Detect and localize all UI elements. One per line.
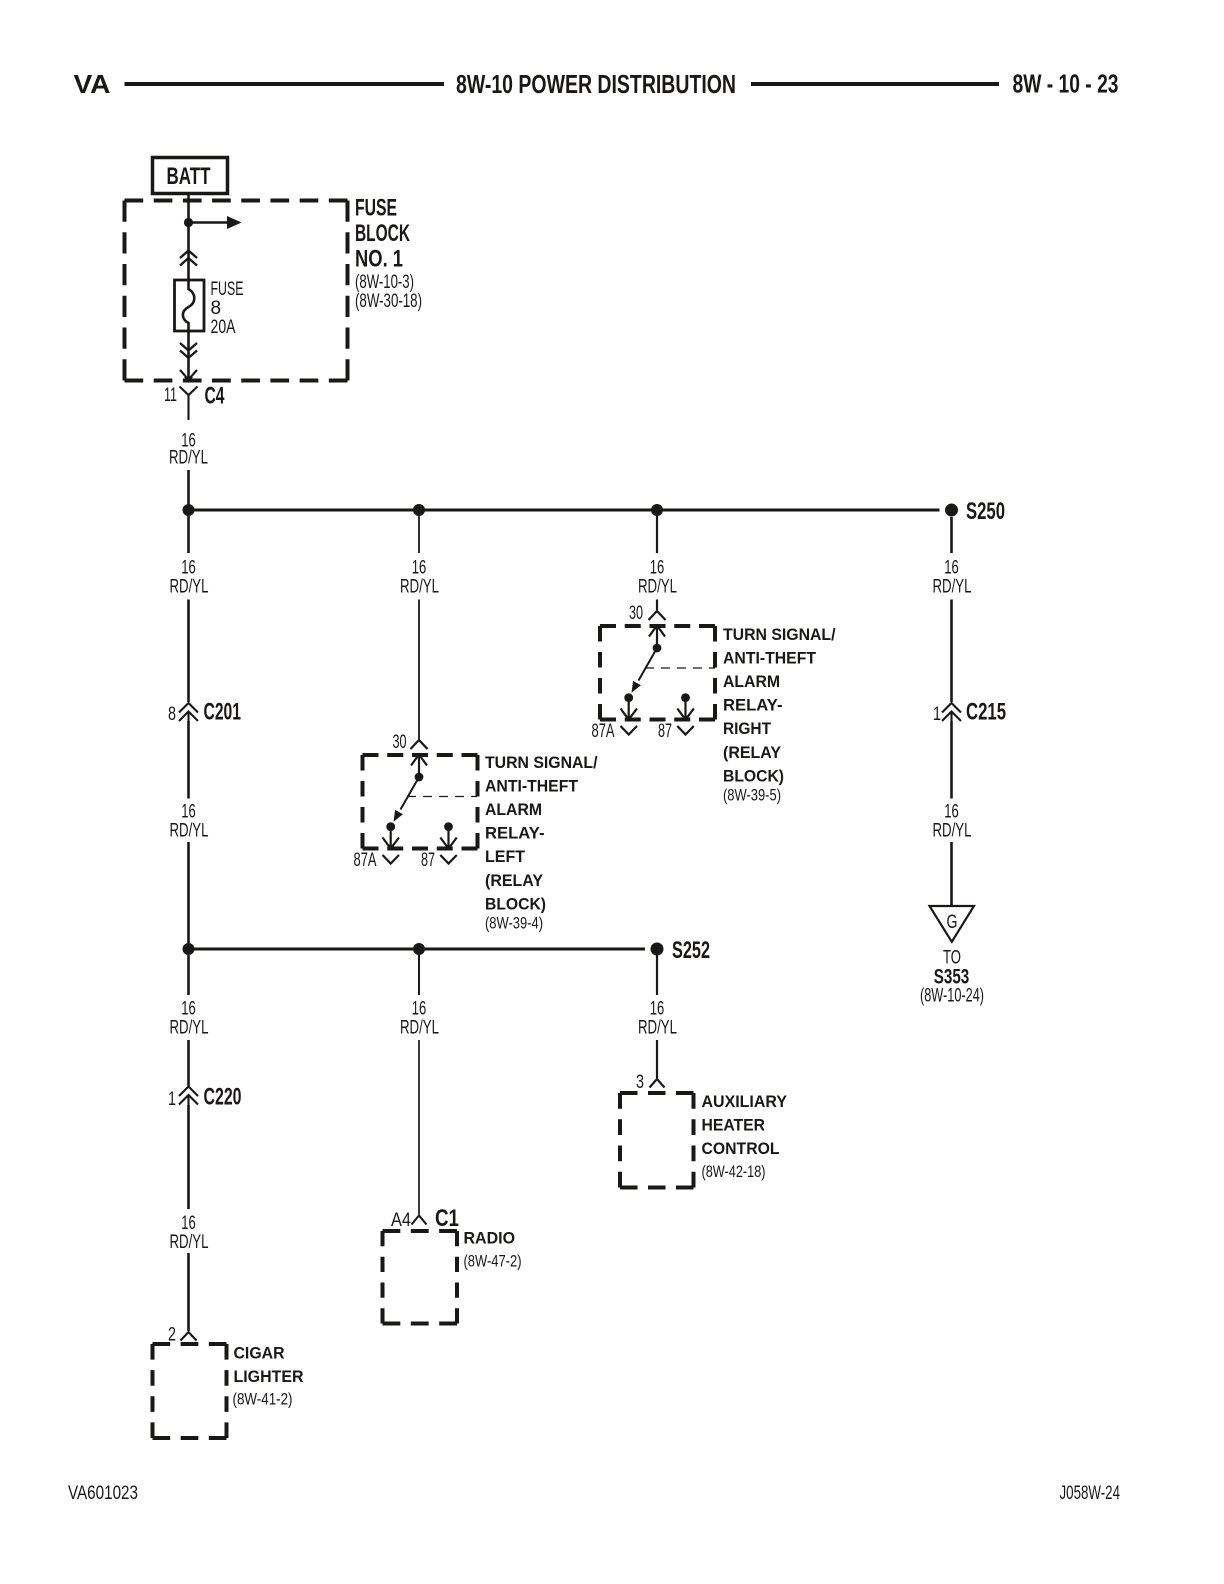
svg-text:16: 16 — [181, 999, 196, 1020]
junction node left column — [183, 943, 195, 955]
svg-text:30: 30 — [393, 732, 407, 753]
wire to ground symbol — [950, 842, 953, 906]
wire C220 down — [187, 1105, 190, 1209]
aux heater control dashed box — [620, 1093, 694, 1188]
wire BATT to junction — [187, 194, 190, 223]
svg-text:C220: C220 — [204, 1084, 242, 1111]
svg-text:RD/YL: RD/YL — [170, 577, 209, 598]
wire gauge label 16 RD/YL — [170, 802, 209, 842]
connector C220 chevrons — [179, 1087, 198, 1106]
svg-text:(8W-39-4): (8W-39-4) — [485, 914, 543, 933]
svg-text:ANTI-THEFT: ANTI-THEFT — [723, 649, 817, 668]
svg-text:(8W-42-18): (8W-42-18) — [702, 1162, 766, 1181]
terminal 87 male arrow — [677, 698, 694, 720]
wire label to connector C201 — [187, 600, 190, 703]
label FUSE BLOCK NO. 1 — [355, 195, 410, 273]
wire label to relay terminal 30 — [656, 600, 658, 611]
relay armature arrow to 87A — [401, 777, 420, 810]
cigar lighter dashed box — [153, 1344, 227, 1438]
relay right dashed box — [600, 626, 715, 720]
label RADIO — [464, 1229, 522, 1271]
terminal 30 female fork — [411, 740, 428, 749]
wire C215 down — [950, 721, 953, 799]
svg-text:RD/YL: RD/YL — [170, 821, 209, 842]
terminal 30 male arrow into relay — [411, 755, 427, 778]
terminal 87 female fork — [677, 726, 694, 735]
relay internal divider dashed — [645, 667, 715, 669]
svg-text:RD/YL: RD/YL — [169, 448, 208, 469]
svg-text:RD/YL: RD/YL — [933, 577, 972, 598]
svg-text:8: 8 — [168, 704, 176, 725]
svg-text:C201: C201 — [204, 699, 242, 726]
svg-text:FUSE: FUSE — [355, 195, 397, 222]
crimp chevrons up — [180, 251, 197, 266]
svg-text:RELAY-: RELAY- — [723, 696, 783, 715]
relay common node — [415, 773, 424, 782]
relay armature arrow to 87A — [639, 648, 658, 681]
wire label to connector C215 — [950, 600, 953, 703]
svg-text:(RELAY: (RELAY — [723, 743, 782, 762]
terminal 87A female fork — [383, 855, 400, 864]
wire gauge label 16 RD/YL — [170, 1213, 209, 1253]
svg-text:8: 8 — [211, 298, 222, 319]
svg-text:1: 1 — [933, 704, 941, 725]
svg-text:CIGAR: CIGAR — [234, 1344, 285, 1363]
svg-text:RD/YL: RD/YL — [400, 1018, 439, 1039]
radio dashed box — [383, 1231, 458, 1324]
label CIGAR LIGHTER — [233, 1344, 304, 1409]
terminal 87A male arrow — [621, 698, 638, 720]
wire gauge label 16 RD/YL — [400, 558, 439, 598]
wire C201 down — [187, 721, 190, 799]
svg-text:FUSE: FUSE — [211, 279, 244, 300]
svg-text:87A: 87A — [354, 850, 377, 871]
terminal 87 node — [681, 693, 690, 702]
svg-text:BATT: BATT — [167, 163, 211, 190]
svg-text:(8W-30-18): (8W-30-18) — [355, 291, 422, 312]
svg-text:S250: S250 — [966, 498, 1005, 525]
label FUSE 8 20A — [211, 279, 244, 338]
wire to bus2 — [187, 842, 190, 949]
svg-text:LEFT: LEFT — [485, 847, 526, 866]
svg-text:(RELAY: (RELAY — [485, 871, 544, 890]
svg-text:RD/YL: RD/YL — [400, 577, 439, 598]
svg-text:BLOCK: BLOCK — [355, 220, 410, 247]
fuse F8 20A — [175, 280, 205, 331]
splice S250 node — [945, 504, 958, 517]
svg-text:CONTROL: CONTROL — [702, 1139, 780, 1158]
wire gauge label 16 RD/YL — [933, 802, 972, 842]
svg-text:87A: 87A — [592, 721, 615, 742]
svg-text:RD/YL: RD/YL — [638, 577, 677, 598]
splice S252 node — [651, 943, 664, 956]
svg-text:BLOCK): BLOCK) — [485, 895, 546, 914]
svg-text:RD/YL: RD/YL — [638, 1018, 677, 1039]
terminal 30 male arrow into relay — [649, 626, 665, 649]
junction node right-mid column — [651, 504, 663, 516]
terminal 87A node — [386, 822, 395, 831]
svg-text:G: G — [947, 912, 958, 933]
connector C201 chevrons — [179, 703, 198, 721]
terminal 30 female fork — [649, 611, 666, 620]
label TO S353 — [920, 948, 984, 1007]
svg-text:(8W-39-5): (8W-39-5) — [723, 786, 781, 805]
svg-text:87: 87 — [658, 721, 672, 742]
junction node in fuse block — [184, 218, 193, 227]
svg-text:NO. 1: NO. 1 — [355, 246, 403, 273]
junction node mid column — [413, 504, 425, 516]
svg-text:TURN SIGNAL/: TURN SIGNAL/ — [723, 625, 836, 644]
terminal 87A female fork — [621, 726, 638, 735]
svg-text:ALARM: ALARM — [723, 672, 780, 691]
wire bus2 to label (mid) — [418, 955, 420, 995]
header rule left — [125, 82, 445, 86]
label turn signal relay right — [723, 625, 836, 805]
svg-text:VA: VA — [74, 69, 111, 99]
svg-text:AUXILIARY: AUXILIARY — [702, 1092, 788, 1111]
wire gauge label 16 RD/YL — [170, 558, 209, 598]
svg-text:RD/YL: RD/YL — [170, 1018, 209, 1039]
wire gauge label 16 RD/YL — [638, 558, 677, 598]
relay left dashed box — [363, 755, 478, 849]
relay internal divider dashed — [407, 796, 477, 798]
battery feed box BATT — [153, 158, 228, 194]
wire gauge label 16 RD/YL — [400, 999, 439, 1039]
wire S252 to label (right) — [656, 955, 658, 995]
svg-text:8W - 10 - 23: 8W - 10 - 23 — [1013, 69, 1119, 99]
svg-text:VA601023: VA601023 — [68, 1483, 138, 1504]
connector C215 chevrons — [942, 703, 961, 721]
svg-text:S252: S252 — [672, 937, 710, 964]
label turn signal relay left — [485, 753, 598, 933]
relay common node — [653, 644, 662, 653]
svg-text:16: 16 — [944, 802, 959, 823]
wire C4 to bus — [187, 470, 190, 510]
junction node left column — [183, 504, 195, 516]
wire label to relay terminal 30 — [418, 600, 420, 740]
ground triangle G — [930, 906, 975, 942]
svg-text:16: 16 — [944, 558, 959, 579]
svg-text:J058W-24: J058W-24 — [1060, 1483, 1121, 1504]
svg-text:RIGHT: RIGHT — [723, 719, 772, 738]
svg-text:RADIO: RADIO — [464, 1229, 516, 1248]
wire bus to label — [187, 516, 190, 553]
aux heater terminal fork — [650, 1079, 665, 1088]
header rule right — [751, 82, 999, 86]
terminal 87 node — [444, 822, 453, 831]
svg-text:87: 87 — [421, 850, 435, 871]
wire gauge label 16 RD/YL — [933, 558, 972, 598]
svg-text:C215: C215 — [966, 699, 1006, 726]
wire to cigar lighter — [187, 1253, 190, 1331]
svg-text:16: 16 — [412, 558, 427, 579]
svg-text:TURN SIGNAL/: TURN SIGNAL/ — [485, 753, 598, 772]
wire bus to label — [656, 516, 658, 553]
svg-text:C1: C1 — [435, 1205, 459, 1232]
wire bus2 to label (left) — [187, 955, 190, 995]
wire branch arrow to other circuits — [189, 221, 229, 224]
wire label to connector C220 — [187, 1040, 190, 1086]
svg-text:RD/YL: RD/YL — [933, 821, 972, 842]
terminal 87 male arrow — [440, 827, 457, 849]
svg-text:RD/YL: RD/YL — [170, 1232, 209, 1253]
wire gauge label 16 RD/YL — [638, 999, 677, 1039]
svg-text:C4: C4 — [205, 383, 225, 410]
svg-text:(8W-47-2): (8W-47-2) — [464, 1252, 522, 1271]
svg-text:RELAY-: RELAY- — [485, 824, 545, 843]
svg-text:A4: A4 — [391, 1210, 411, 1231]
crimp chevrons down — [180, 343, 197, 358]
svg-text:16: 16 — [181, 558, 196, 579]
svg-text:HEATER: HEATER — [702, 1116, 766, 1135]
wire label to radio — [418, 1040, 420, 1215]
connector C4 female Y — [180, 387, 198, 421]
svg-text:16: 16 — [181, 802, 196, 823]
svg-text:20A: 20A — [211, 317, 236, 338]
label AUXILIARY HEATER CONTROL — [702, 1092, 788, 1181]
fuse block no.1 dashed box — [125, 201, 348, 381]
connector C4 male arrow — [180, 370, 197, 380]
wire gauge label 16 RD/YL — [170, 999, 209, 1039]
svg-text:(8W-10-3): (8W-10-3) — [355, 272, 414, 293]
svg-text:16: 16 — [650, 999, 665, 1020]
svg-text:16: 16 — [650, 558, 665, 579]
svg-text:16: 16 — [181, 1213, 196, 1234]
svg-text:(8W-41-2): (8W-41-2) — [233, 1390, 293, 1409]
wire gauge label 16 RD/YL — [169, 431, 208, 469]
svg-text:(8W-10-24): (8W-10-24) — [920, 986, 984, 1007]
svg-text:LIGHTER: LIGHTER — [234, 1367, 304, 1386]
bus wire to splice S252 — [189, 948, 646, 951]
svg-text:3: 3 — [636, 1072, 644, 1093]
svg-text:8W-10 POWER DISTRIBUTION: 8W-10 POWER DISTRIBUTION — [456, 69, 736, 99]
svg-text:BLOCK): BLOCK) — [723, 767, 784, 786]
terminal 87A male arrow — [383, 827, 400, 849]
wire bus to label — [418, 516, 420, 553]
svg-text:16: 16 — [412, 999, 427, 1020]
svg-text:ALARM: ALARM — [485, 800, 542, 819]
svg-text:30: 30 — [629, 603, 643, 624]
terminal 87 female fork — [440, 855, 457, 864]
bus wire to splice S250 — [189, 509, 940, 512]
wire label to aux heater control — [656, 1040, 658, 1078]
wire S250 to label — [950, 517, 953, 553]
wire junction to fuse — [187, 223, 190, 281]
radio terminal fork — [412, 1216, 427, 1225]
wire fuse to connector C4 — [187, 331, 190, 380]
svg-text:11: 11 — [164, 385, 177, 406]
svg-text:ANTI-THEFT: ANTI-THEFT — [485, 777, 579, 796]
svg-text:1: 1 — [168, 1089, 176, 1110]
terminal 87A node — [624, 693, 633, 702]
junction node mid column — [413, 943, 425, 955]
cigar lighter terminal fork — [181, 1332, 197, 1341]
